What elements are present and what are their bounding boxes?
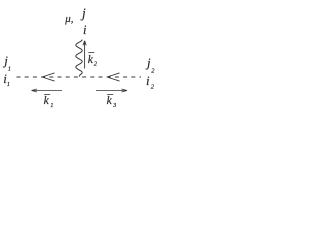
photon squiggle (wavy line): [76, 40, 82, 77]
momentum line k3 (right, arrow to right): [96, 89, 127, 92]
svg-text:i: i: [83, 23, 87, 37]
svg-text:1: 1: [50, 102, 53, 109]
svg-text:1: 1: [7, 81, 10, 88]
arrowhead left on dashed line (right): [107, 73, 120, 81]
svg-text:1: 1: [8, 66, 11, 73]
svg-text:μ,: μ,: [64, 13, 74, 25]
svg-text:k: k: [44, 95, 50, 107]
svg-text:i: i: [146, 73, 150, 88]
wire: dashed fermion line: [17, 76, 142, 78]
svg-text:k: k: [107, 95, 113, 107]
momentum arrow up (photon): [83, 41, 86, 69]
arrowhead left on dashed line (left): [42, 73, 55, 81]
momentum line k1 (left, arrow to left): [32, 89, 63, 92]
